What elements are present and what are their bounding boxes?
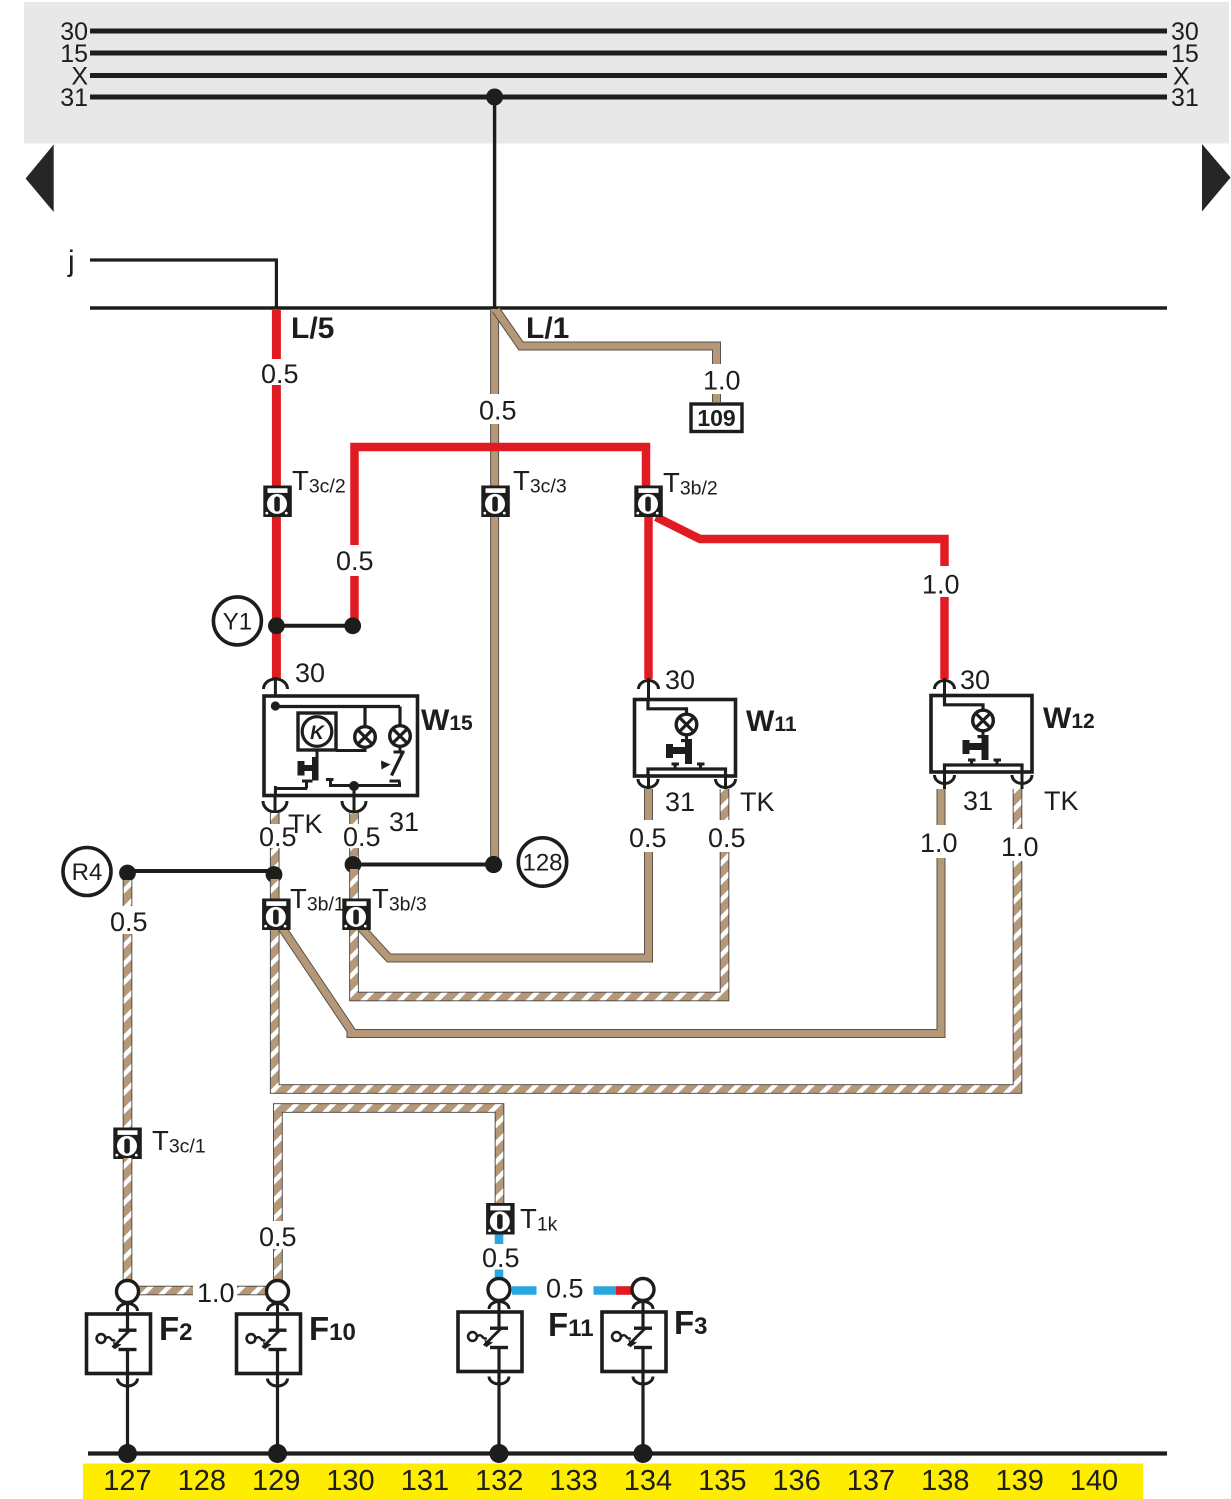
component R4 (circle callout): [63, 848, 111, 896]
wire hatched T3c/1 to F2: [123, 1158, 133, 1281]
svg-text:0.5: 0.5: [110, 907, 148, 937]
svg-text:0.5: 0.5: [336, 546, 374, 576]
junction dot F11 ground: [490, 1444, 509, 1463]
wire hatched stub W15 31 lower: [349, 848, 359, 860]
terminal arc top of F2: [118, 1304, 138, 1312]
terminal arc bottom of F2: [118, 1379, 138, 1387]
component W11 reading light box: [635, 700, 736, 777]
svg-text:1.0: 1.0: [703, 366, 741, 396]
value label 1.0 (W12 31 wire): [918, 828, 958, 856]
svg-text:134: 134: [624, 1465, 672, 1497]
terminal circle of F2: [117, 1281, 139, 1303]
wire hatched T3b/1 to W12 TK (upper gap for label): [275, 861, 1018, 1089]
junction dot F10 ground: [268, 1444, 287, 1463]
wire F2 to ground rail: [126, 1374, 129, 1454]
svg-text:30: 30: [960, 665, 990, 695]
wire blue T1k to F11 lower stub: [495, 1270, 504, 1280]
svg-text:0.5: 0.5: [546, 1274, 584, 1304]
svg-text:0.5: 0.5: [343, 822, 381, 852]
svg-text:0.5: 0.5: [259, 822, 297, 852]
component Y1 (circle callout): [213, 597, 261, 645]
wire from bus 31 down to L/1 node: [493, 97, 496, 308]
terminal arc bottom of F3: [633, 1377, 653, 1385]
svg-text:Y1: Y1: [223, 609, 252, 636]
wire hatched W11 TK stub above label: [720, 789, 730, 820]
svg-text:128: 128: [178, 1465, 226, 1497]
wire red W12 feed lower part: [940, 597, 949, 679]
junction dot R4: [119, 865, 136, 882]
component W12 reading light box: [931, 696, 1032, 773]
svg-text:TK: TK: [740, 787, 775, 817]
component F10 door contact switch: [237, 1314, 301, 1374]
lamp W15 right bulb: [390, 726, 411, 747]
wire blue F11 to F3 right segment: [594, 1286, 617, 1295]
wire j stub: [90, 260, 276, 308]
wire stub into F3: [642, 1300, 645, 1312]
svg-text:131: 131: [401, 1465, 449, 1497]
lamp W12 bulb: [973, 710, 994, 731]
junction dot W15 TK node: [266, 866, 283, 883]
wire red L/5 middle segment: [272, 385, 281, 622]
terminal arc 30 of W15: [264, 679, 288, 689]
terminal arc TK of W15: [263, 801, 287, 812]
svg-text:132: 132: [475, 1465, 523, 1497]
wire brown W12 31 stub above label: [937, 789, 946, 825]
wire stub into F2: [126, 1302, 129, 1314]
svg-text:136: 136: [772, 1465, 820, 1497]
wire red T3b/2 to W11 terminal 30: [644, 515, 653, 679]
wire stub into W11: [647, 678, 650, 700]
lamp W11 bulb: [676, 714, 697, 735]
svg-text:R4: R4: [72, 859, 103, 886]
top gray bus band: [24, 2, 1229, 144]
wire F10 to ground rail: [276, 1374, 279, 1454]
wire hatched R4 to T3c/1 upper: [123, 880, 133, 906]
left page arrow: [26, 145, 54, 213]
svg-text:L/5: L/5: [291, 312, 334, 345]
terminal arc 31 of W11: [638, 779, 658, 788]
svg-text:1.0: 1.0: [1001, 832, 1039, 862]
wire hatched stub W15 31 upper: [349, 813, 359, 824]
value label 1.0 (W12 TK wire): [999, 831, 1039, 859]
connector T3b/3: [342, 883, 426, 930]
svg-text:31: 31: [665, 787, 695, 817]
svg-text:135: 135: [698, 1465, 746, 1497]
wire red L/5 upper segment: [272, 309, 281, 359]
junction dot Y1 left: [268, 617, 285, 634]
wire F11 to ground rail: [497, 1372, 500, 1454]
yellow track number band: [83, 1464, 1143, 1499]
wire red T3b/2 to W12 terminal 30, upper part: [656, 517, 945, 566]
svg-text:0.5: 0.5: [261, 359, 299, 389]
svg-text:0.5: 0.5: [482, 1243, 520, 1273]
wire brown L/1 vertical lower segment to 128 node: [490, 424, 499, 858]
junction dot F3 ground: [634, 1444, 653, 1463]
terminal arc top of F11: [489, 1302, 509, 1310]
terminal arc bottom of F11: [489, 1377, 509, 1385]
svg-text:L/1: L/1: [526, 312, 569, 345]
component F11 door contact switch: [458, 1312, 522, 1372]
connector T1k: [486, 1203, 558, 1236]
connector T3c/1: [113, 1125, 205, 1159]
bus wire 15: [90, 51, 1167, 56]
right page arrow: [1202, 144, 1231, 212]
svg-text:j: j: [67, 245, 75, 278]
svg-text:137: 137: [847, 1465, 895, 1497]
wire brown 109 branch lower stub: [712, 394, 721, 402]
wire hatched F2 to F10 right segment: [237, 1286, 267, 1296]
lamp W15 left bulb: [355, 727, 376, 748]
wire Y1 link: [276, 624, 352, 628]
component F2 door contact switch: [87, 1314, 151, 1374]
wire stub into W15: [274, 677, 277, 699]
svg-text:30: 30: [665, 665, 695, 695]
terminal arc 30 of W12: [935, 681, 955, 690]
wire interior light feed rail: [90, 306, 1167, 310]
terminal circle of F11: [488, 1279, 510, 1301]
svg-text:0.5: 0.5: [479, 396, 517, 426]
wire brown W11 31 stub above label: [644, 789, 653, 820]
wire hatched F2 to F10 left segment: [139, 1286, 194, 1296]
svg-text:109: 109: [697, 405, 735, 431]
wire stubs below W15: [275, 796, 354, 814]
wire stub into F10: [276, 1302, 279, 1314]
W15 internal contact wiring: [275, 746, 404, 796]
svg-text:130: 130: [326, 1465, 374, 1497]
junction dot F2 ground: [118, 1444, 137, 1463]
svg-text:0.5: 0.5: [629, 823, 667, 853]
bus wire 30: [90, 29, 1167, 34]
svg-text:139: 139: [996, 1465, 1044, 1497]
svg-text:30: 30: [295, 658, 325, 688]
junction dot W15 31 node: [345, 856, 362, 873]
svg-text:TK: TK: [1044, 786, 1079, 816]
wire hatched F10 to T1k loop: [278, 1108, 500, 1281]
terminal arc 31 of W15: [342, 801, 366, 812]
svg-text:1.0: 1.0: [922, 570, 960, 600]
svg-text:1.0: 1.0: [197, 1278, 235, 1308]
wire brown T3b/3 to W11 31: [361, 852, 649, 958]
ground rail: [88, 1451, 1167, 1455]
terminal arc 30 of W11: [639, 681, 659, 689]
wire hatched stub W15 TK lower: [270, 848, 280, 870]
wire red tip at F3: [616, 1286, 632, 1295]
svg-text:140: 140: [1070, 1465, 1118, 1497]
bus wire 31: [90, 95, 1167, 100]
svg-text:31: 31: [1171, 84, 1199, 112]
terminal arc TK of W11: [716, 779, 736, 788]
svg-text:133: 133: [549, 1465, 597, 1497]
svg-text:0.5: 0.5: [259, 1222, 297, 1252]
wire brown T3b/1 to W12 31: [282, 858, 942, 1034]
wire brown L/1 vertical upper segment: [490, 309, 499, 394]
component W15 interior light box: [264, 696, 418, 796]
wire F3 to ground rail: [641, 1372, 644, 1454]
wire stubs below W11: [649, 776, 726, 789]
terminal arc TK of W12: [1012, 775, 1032, 784]
wire blue F11 to F3 left segment: [512, 1286, 537, 1295]
node 128 link wire: [353, 863, 493, 867]
wire hatched T3b/3 to W11 TK: [354, 852, 725, 997]
wire hatched TK node to T3b/1: [270, 879, 280, 900]
terminal arc top of F10: [268, 1304, 288, 1312]
wire brown branch to terminal 109: [496, 310, 717, 364]
wire stub into F11: [498, 1300, 501, 1312]
connector T3c/3: [481, 465, 566, 517]
svg-text:31: 31: [389, 807, 419, 837]
svg-text:0.5: 0.5: [708, 823, 746, 853]
wire stub into W12: [943, 678, 946, 696]
junction dot on bus 31: [486, 89, 503, 106]
wire red branch Y1 to T3b/2 upper: [355, 447, 647, 545]
wire hatched 31 node to T3b/3: [349, 869, 359, 900]
svg-text:1.0: 1.0: [920, 828, 958, 858]
svg-text:31: 31: [60, 84, 88, 112]
junction dot brown L/1 end: [485, 856, 502, 873]
wire R4 link: [128, 869, 274, 873]
svg-text:K: K: [310, 723, 325, 744]
component F3 door contact switch: [602, 1312, 666, 1372]
wire blue T1k to F11 upper stub: [495, 1235, 504, 1245]
wire hatched W12 TK stub above label: [1013, 789, 1023, 829]
terminal arc bottom of F10: [268, 1379, 288, 1387]
wire red branch Y1 to T3b/2 lower: [350, 576, 359, 623]
connector T3b/1: [262, 883, 345, 930]
component 128 (circle callout): [518, 838, 566, 886]
terminal circle of F10: [267, 1281, 289, 1303]
svg-text:31: 31: [963, 786, 993, 816]
junction dot Y1 right: [344, 617, 361, 634]
wire hatched R4 to T3c/1 lower: [123, 934, 133, 1128]
terminal circle of F3: [632, 1279, 654, 1301]
terminal 109 box: [691, 404, 742, 432]
bus wire X: [90, 73, 1167, 78]
svg-text:129: 129: [252, 1465, 300, 1497]
connector T3c/2: [263, 465, 345, 517]
wire stubs below W12: [945, 772, 1023, 789]
terminal arc 31 of W12: [935, 775, 955, 784]
connector T3b/2: [634, 467, 717, 517]
svg-text:138: 138: [921, 1465, 969, 1497]
svg-text:127: 127: [103, 1465, 151, 1497]
svg-text:128: 128: [522, 850, 562, 877]
terminal arc top of F3: [633, 1302, 653, 1310]
wire red Y1 to W15 terminal 30: [272, 626, 281, 679]
wire hatched stub W15 TK upper: [270, 813, 280, 824]
